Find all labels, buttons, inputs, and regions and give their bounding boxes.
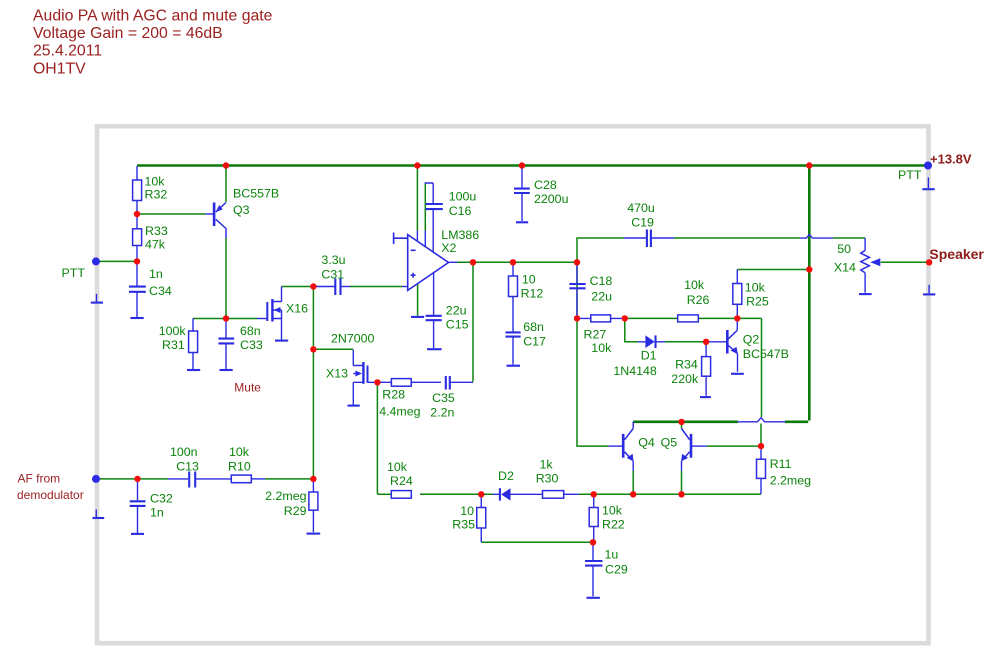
- svg-text:1u: 1u: [605, 548, 619, 562]
- svg-text:1k: 1k: [540, 458, 554, 472]
- svg-text:R31: R31: [162, 338, 185, 352]
- svg-text:demodulator: demodulator: [17, 488, 84, 502]
- svg-text:D2: D2: [498, 469, 514, 483]
- svg-text:R27: R27: [584, 328, 607, 342]
- svg-text:D1: D1: [641, 348, 657, 362]
- svg-text:10k: 10k: [591, 341, 612, 355]
- svg-text:Voltage Gain = 200 = 46dB: Voltage Gain = 200 = 46dB: [33, 25, 223, 42]
- svg-text:2.2meg: 2.2meg: [770, 473, 811, 487]
- svg-text:10: 10: [460, 504, 474, 518]
- svg-text:220k: 220k: [671, 372, 699, 386]
- svg-text:10k: 10k: [229, 445, 250, 459]
- svg-text:10k: 10k: [684, 278, 705, 292]
- svg-text:+13.8V: +13.8V: [930, 151, 972, 166]
- svg-text:100k: 100k: [159, 324, 187, 338]
- svg-text:X13: X13: [326, 367, 348, 381]
- svg-text:68n: 68n: [240, 324, 261, 338]
- svg-text:R10: R10: [228, 460, 251, 474]
- svg-text:C32: C32: [150, 492, 173, 506]
- svg-text:C29: C29: [605, 562, 628, 576]
- svg-text:R24: R24: [390, 474, 413, 488]
- svg-text:50: 50: [837, 242, 851, 256]
- svg-text:Q5: Q5: [661, 435, 678, 449]
- svg-text:1N4148: 1N4148: [613, 364, 657, 378]
- svg-text:4.4meg: 4.4meg: [379, 404, 420, 418]
- svg-text:C19: C19: [631, 215, 654, 229]
- svg-text:C31: C31: [321, 267, 344, 281]
- svg-text:100n: 100n: [170, 445, 198, 459]
- svg-text:10k: 10k: [745, 280, 766, 294]
- svg-text:R32: R32: [145, 188, 168, 202]
- svg-text:2N7000: 2N7000: [331, 332, 375, 346]
- svg-text:R12: R12: [521, 287, 544, 301]
- svg-text:Q2: Q2: [743, 333, 760, 347]
- svg-text:C35: C35: [432, 391, 455, 405]
- svg-text:R33: R33: [145, 224, 168, 238]
- svg-text:10k: 10k: [145, 175, 166, 189]
- svg-text:1n: 1n: [150, 505, 164, 519]
- svg-text:R29: R29: [284, 504, 307, 518]
- svg-text:2.2n: 2.2n: [430, 405, 454, 419]
- svg-text:1n: 1n: [149, 267, 163, 281]
- svg-text:C16: C16: [449, 204, 472, 218]
- svg-text:C33: C33: [240, 338, 263, 352]
- svg-text:2200u: 2200u: [534, 192, 569, 206]
- svg-text:R35: R35: [452, 518, 475, 532]
- svg-text:R26: R26: [687, 293, 710, 307]
- svg-text:C28: C28: [534, 178, 557, 192]
- svg-text:R22: R22: [602, 518, 625, 532]
- svg-text:C13: C13: [176, 460, 199, 474]
- svg-text:OH1TV: OH1TV: [33, 60, 86, 77]
- svg-text:2.2meg: 2.2meg: [265, 489, 306, 503]
- svg-text:Q4: Q4: [638, 435, 655, 449]
- svg-text:R28: R28: [382, 387, 405, 401]
- svg-text:C15: C15: [446, 318, 469, 332]
- svg-text:Speaker: Speaker: [929, 246, 984, 262]
- svg-text:BC547B: BC547B: [743, 347, 789, 361]
- svg-text:C17: C17: [523, 334, 546, 348]
- svg-text:470u: 470u: [627, 201, 655, 215]
- svg-text:PTT: PTT: [62, 266, 86, 280]
- svg-text:X14: X14: [834, 261, 856, 275]
- svg-text:Mute: Mute: [234, 381, 261, 395]
- svg-text:X2: X2: [441, 241, 456, 255]
- svg-text:Q3: Q3: [233, 203, 250, 217]
- svg-text:Audio PA with AGC and mute gat: Audio PA with AGC and mute gate: [33, 7, 273, 24]
- svg-text:10: 10: [522, 273, 536, 287]
- svg-text:C34: C34: [149, 284, 172, 298]
- svg-text:68n: 68n: [523, 320, 544, 334]
- svg-text:BC557B: BC557B: [233, 187, 279, 201]
- svg-text:R34: R34: [675, 358, 698, 372]
- svg-text:100u: 100u: [449, 189, 477, 203]
- svg-text:X16: X16: [286, 302, 308, 316]
- svg-text:LM386: LM386: [441, 228, 479, 242]
- svg-text:22u: 22u: [591, 289, 612, 303]
- svg-text:3.3u: 3.3u: [321, 253, 345, 267]
- svg-text:C18: C18: [590, 274, 613, 288]
- svg-text:PTT: PTT: [898, 168, 922, 182]
- svg-text:10k: 10k: [602, 504, 623, 518]
- svg-text:10k: 10k: [387, 460, 408, 474]
- svg-text:25.4.2011: 25.4.2011: [33, 43, 102, 60]
- svg-text:R11: R11: [770, 457, 792, 471]
- svg-text:R25: R25: [746, 295, 769, 309]
- svg-text:R30: R30: [536, 471, 559, 485]
- svg-text:AF from: AF from: [18, 472, 61, 486]
- svg-text:22u: 22u: [446, 304, 467, 318]
- svg-text:47k: 47k: [145, 238, 166, 252]
